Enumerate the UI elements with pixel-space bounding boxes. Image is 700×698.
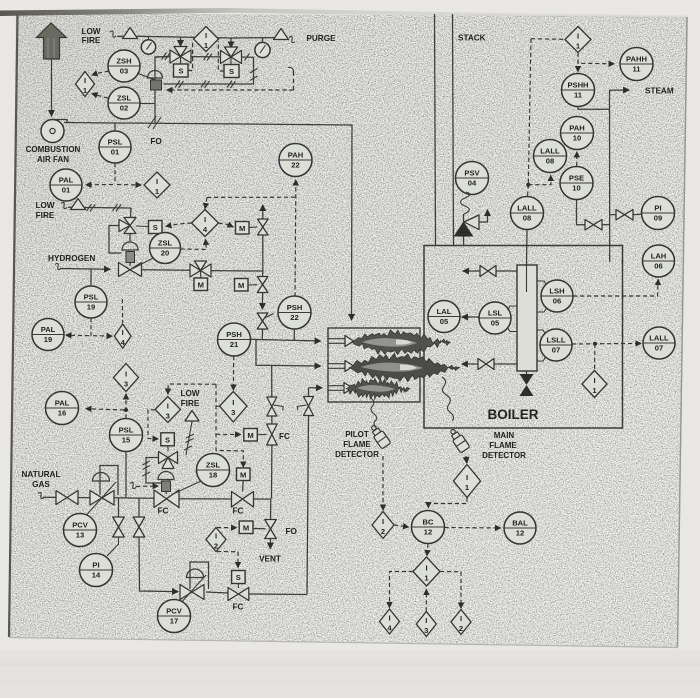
wire riser corner to burner 1 line xyxy=(261,329,263,340)
svg-text:S: S xyxy=(178,67,183,76)
FO vent valve xyxy=(265,520,277,539)
wire interlock header vertical xyxy=(216,384,243,467)
wire BC down to diamond xyxy=(427,544,428,556)
wire valve to PI14 xyxy=(107,537,119,556)
svg-text:I: I xyxy=(382,517,384,526)
wire interlock 3 up arrow xyxy=(425,590,427,612)
svg-text:FO: FO xyxy=(286,527,298,536)
manual valve on hydrogen riser xyxy=(257,313,273,329)
solenoid box S (hydrogen vent) xyxy=(149,221,163,234)
svg-text:I: I xyxy=(122,328,124,337)
svg-text:LSLL: LSLL xyxy=(547,336,566,345)
instrument LALL 08 (upper) xyxy=(534,140,567,173)
svg-text:09: 09 xyxy=(654,214,662,223)
wire S stem to pilot valve xyxy=(237,584,239,589)
wire PI14 branch xyxy=(118,498,120,517)
instrument BC 12 xyxy=(412,511,445,544)
hydrogen valve actuator dome and stem xyxy=(122,234,138,267)
wire faint dashed above diamond 4 xyxy=(121,299,123,323)
wire riser down with flow arrow xyxy=(261,293,263,310)
svg-text:10: 10 xyxy=(572,184,580,193)
3-way solenoid valve 1 xyxy=(170,47,191,65)
actuator box M (FO vent) xyxy=(239,521,253,534)
svg-text:I: I xyxy=(84,76,86,85)
wire purge header continues xyxy=(231,37,276,39)
svg-text:19: 19 xyxy=(44,335,52,344)
instrument PSHH 11 xyxy=(562,74,595,107)
burner block valve FC xyxy=(232,492,254,508)
hash marks gas vent xyxy=(184,434,194,450)
vent triangle low fire xyxy=(117,28,138,39)
svg-text:FIRE: FIRE xyxy=(36,211,55,220)
svg-text:HYDROGEN: HYDROGEN xyxy=(48,254,95,263)
interlock diamond 4 (bottom) xyxy=(380,609,400,634)
wire diamond to interlock 4 xyxy=(390,572,414,608)
instrument PCV 17 xyxy=(158,600,191,633)
wire valve to S stub xyxy=(136,225,149,228)
interlock diamond 1 (dampers) xyxy=(76,72,95,97)
steam line stub inside boiler xyxy=(609,246,611,263)
svg-text:02: 02 xyxy=(120,104,128,113)
svg-text:PSE: PSE xyxy=(569,174,584,183)
svg-text:PAL: PAL xyxy=(41,325,56,334)
wire S2 signal riser xyxy=(218,41,224,71)
label LOW FIRE (gas) xyxy=(180,389,199,408)
instrument PSL 01 xyxy=(99,131,131,163)
svg-text:FC: FC xyxy=(279,432,290,441)
wire burner 1 feed line xyxy=(251,339,321,341)
svg-text:PSHH: PSHH xyxy=(567,81,588,90)
svg-text:10: 10 xyxy=(573,134,581,143)
wire valve side loop xyxy=(109,226,122,254)
drum blowdown valve (solid) xyxy=(520,371,534,396)
wire ZSL18 stem to valve xyxy=(172,481,201,495)
svg-text:I: I xyxy=(125,370,127,379)
instrument LSLL 07 xyxy=(540,329,572,361)
svg-text:01: 01 xyxy=(62,186,71,195)
interlock diamond 2 (bottom) xyxy=(451,610,471,635)
svg-text:I: I xyxy=(156,177,158,186)
wire junction down to LALL lower xyxy=(527,185,530,197)
burner windbox xyxy=(328,328,420,402)
solenoid box S (pilot) xyxy=(232,571,246,584)
wire header branch to M main gas xyxy=(216,433,241,435)
svg-text:VENT: VENT xyxy=(259,555,281,564)
instrument PSE 10 xyxy=(560,167,593,200)
svg-text:03: 03 xyxy=(120,67,128,76)
svg-text:05: 05 xyxy=(440,317,449,326)
wire hydrogen line to riser xyxy=(211,270,263,272)
wire PSH21 signal to diamond 3 xyxy=(232,356,234,390)
wire ZSL02 stub xyxy=(140,103,155,105)
svg-text:FC: FC xyxy=(158,507,169,516)
svg-text:GAS: GAS xyxy=(32,480,50,489)
svg-text:LSH: LSH xyxy=(549,287,564,296)
svg-text:ZSL: ZSL xyxy=(117,94,132,103)
svg-text:I: I xyxy=(167,402,169,411)
gauge (pressure, left) xyxy=(141,37,155,55)
svg-text:11: 11 xyxy=(632,65,641,74)
damper column with actuator xyxy=(148,57,171,124)
wire ZSL20 stem to valve xyxy=(133,258,153,269)
bottom edge line xyxy=(9,638,678,648)
svg-text:LALL: LALL xyxy=(540,147,560,156)
wire pilot detector signal xyxy=(382,456,384,510)
instrument LSL 05 xyxy=(479,302,511,334)
node junction dot PSL15 signal xyxy=(124,408,128,412)
instrument PAH 10 xyxy=(561,117,594,150)
svg-text:NATURAL: NATURAL xyxy=(22,470,61,479)
svg-text:LALL: LALL xyxy=(517,204,537,213)
instrument LAH 06 xyxy=(643,245,675,277)
wire riser down from hydrogen line xyxy=(262,271,264,277)
svg-text:I: I xyxy=(215,532,217,541)
wire junction to LALL upper xyxy=(528,176,551,185)
wire M stub to riser valve xyxy=(248,284,257,286)
instrument PI 09 xyxy=(642,197,675,230)
instrument PSH 21 xyxy=(218,323,251,356)
wire SSV vent loop with hashes xyxy=(143,458,162,484)
FO break symbol on duct xyxy=(148,116,161,129)
main gas safety shutoff valve FC xyxy=(154,490,179,508)
PCV17 yoke and dome xyxy=(179,562,209,605)
svg-text:LOW: LOW xyxy=(180,389,199,398)
interlock diamond 1 (main flame) xyxy=(454,465,481,498)
interlock diamond 4 (hydrogen pressure) xyxy=(114,324,131,348)
svg-text:I: I xyxy=(460,614,462,623)
svg-text:PAH: PAH xyxy=(288,151,303,160)
interlock diamond 3 (gas pressure) xyxy=(114,364,139,392)
wire hydrogen inlet xyxy=(60,268,110,271)
wire diamond to PSHH xyxy=(577,53,579,72)
svg-text:PSL: PSL xyxy=(119,426,134,435)
wire M to vent riser valve stub xyxy=(249,226,258,229)
wire vent arrow down xyxy=(269,539,271,549)
purge squiggle xyxy=(289,36,295,42)
flame burner 1 xyxy=(351,330,450,355)
interlock diamond 2 (pilot flame) xyxy=(372,512,394,539)
actuator box M (burner isolation) xyxy=(237,468,251,481)
svg-text:I: I xyxy=(232,398,234,407)
svg-text:06: 06 xyxy=(553,297,561,306)
wire PSH22 to PAH22 dashed riser xyxy=(294,180,297,297)
svg-text:I: I xyxy=(425,564,427,573)
wire LSH06 to LAH06 xyxy=(573,280,658,297)
wire LALL lower tap into boiler xyxy=(526,230,529,266)
svg-text:PAL: PAL xyxy=(59,176,74,185)
3-way valve above gas SSV xyxy=(159,446,178,469)
wire LSL05 to LAL05 arrow xyxy=(462,316,479,318)
wire steam line xyxy=(610,90,630,246)
wire M stub to FO valve xyxy=(253,528,266,530)
svg-text:DETECTOR: DETECTOR xyxy=(482,451,526,460)
wire main flame diamond to BC xyxy=(428,498,467,508)
wire diamond4 to S box xyxy=(166,223,192,226)
valve PCV13 body xyxy=(90,491,114,506)
wire dashed from stack area to diamond xyxy=(531,38,565,41)
3-way vent valve (hydrogen actuator) xyxy=(119,218,136,234)
wire ZSH03 to diamond xyxy=(92,71,109,75)
wire ZSL02 to diamond xyxy=(92,94,108,99)
wire PSL15 tap xyxy=(125,452,127,498)
wire PSE vent tap xyxy=(577,200,586,225)
svg-text:LSL: LSL xyxy=(488,309,503,318)
svg-text:FLAME: FLAME xyxy=(343,440,371,449)
wire ZSL20 signal to diamond4 xyxy=(181,240,207,250)
wire M to burner block valve xyxy=(242,481,245,492)
instrument PSH 22 xyxy=(278,296,311,329)
FC control valve on main gas riser xyxy=(267,424,278,445)
interlock diamond 1 (air fan) xyxy=(144,172,170,198)
svg-text:STACK: STACK xyxy=(458,34,486,43)
svg-text:17: 17 xyxy=(170,617,178,626)
interlock diamond 3 (bottom) xyxy=(416,612,436,637)
wire diamond2 to pilot solenoid S xyxy=(217,552,238,568)
svg-text:PSH: PSH xyxy=(287,303,303,312)
wire PSHH tap to steam line xyxy=(578,107,610,110)
solenoid box S (gas SSV) xyxy=(161,433,175,446)
flame burner 3 (pilot) xyxy=(346,378,410,399)
purge vent triangle xyxy=(274,29,289,40)
svg-text:21: 21 xyxy=(230,340,239,349)
gas low fire vent triangle xyxy=(185,411,199,456)
gauge (pressure, right) xyxy=(255,38,270,58)
svg-text:BC: BC xyxy=(423,518,434,527)
instrument LALL 07 xyxy=(643,327,675,359)
valve on pilot riser xyxy=(298,397,314,416)
wire PCV17 branch xyxy=(138,498,140,517)
top dark bar xyxy=(0,8,688,19)
svg-text:PSH: PSH xyxy=(226,330,242,339)
svg-text:M: M xyxy=(247,431,253,440)
wire stack pole down to fan xyxy=(51,59,53,116)
svg-text:I: I xyxy=(577,32,579,41)
svg-text:3: 3 xyxy=(424,626,428,635)
relief valve with spring xyxy=(454,192,488,246)
hydrogen low fire squiggle xyxy=(61,202,67,208)
svg-text:I: I xyxy=(593,376,595,385)
hydrogen shutoff valve body xyxy=(119,263,142,277)
wire PI09 stub xyxy=(633,213,642,216)
valve on PI09 tap xyxy=(616,210,633,221)
svg-text:PAHH: PAHH xyxy=(626,55,647,64)
instrument PAL 19 xyxy=(32,319,64,351)
label LOW FIRE (hydrogen) xyxy=(35,201,54,220)
svg-text:COMBUSTION: COMBUSTION xyxy=(26,145,81,154)
flame burner 2 xyxy=(350,353,460,382)
block valve on main gas riser xyxy=(267,397,283,416)
boiler outline box xyxy=(424,246,623,429)
svg-text:LAL: LAL xyxy=(437,307,452,316)
svg-text:06: 06 xyxy=(654,262,662,271)
svg-text:AIR FAN: AIR FAN xyxy=(37,155,69,164)
svg-text:PURGE: PURGE xyxy=(306,34,336,43)
PCV13 yoke and dome actuator xyxy=(82,466,118,521)
svg-text:12: 12 xyxy=(516,529,524,538)
interlock diamond 3 (gas low fire) xyxy=(155,397,180,423)
wire PSL01 tap xyxy=(114,123,116,131)
svg-text:12: 12 xyxy=(424,528,432,537)
actuator box M (main gas valve) xyxy=(244,429,257,442)
wire vent line corner down to 3-way xyxy=(130,208,133,218)
vent squiggle low fire xyxy=(110,31,116,37)
svg-text:I: I xyxy=(204,215,206,224)
instrument BAL 12 xyxy=(504,512,536,544)
label NATURAL GAS xyxy=(22,470,61,489)
wire low fire / purge header xyxy=(136,36,231,38)
wire PSL15 signal up xyxy=(125,394,127,419)
valve on PCV17 branch xyxy=(133,517,145,537)
wire interlock header to diamond3 xyxy=(168,384,216,394)
svg-text:I: I xyxy=(388,614,390,623)
vent stack (atmospheric vent house symbol) xyxy=(37,23,67,59)
drum vent valve upper xyxy=(463,266,517,277)
svg-text:ZSL: ZSL xyxy=(158,239,173,248)
instrument PAH 22 xyxy=(279,144,312,177)
svg-text:18: 18 xyxy=(209,471,217,480)
interlock diamond 4 (H2 vent solenoids) xyxy=(192,210,219,237)
solenoid box S valve2 xyxy=(224,65,239,78)
wire S1 signal riser xyxy=(188,41,193,71)
natural gas inlet squiggle xyxy=(38,492,44,498)
instrument PSL 19 xyxy=(75,286,107,318)
svg-text:ZSL: ZSL xyxy=(206,461,221,470)
svg-text:I: I xyxy=(205,31,207,40)
svg-text:DETECTOR: DETECTOR xyxy=(335,450,379,459)
svg-text:M: M xyxy=(239,224,245,233)
flame rod main (wavy) xyxy=(442,377,453,421)
actuator box M (vent riser) xyxy=(236,222,250,235)
label COMBUSTION AIR FAN xyxy=(26,145,81,164)
svg-text:07: 07 xyxy=(552,346,560,355)
instrument PI 14 xyxy=(80,554,113,587)
node junction dot on stack signal xyxy=(526,183,530,187)
svg-text:S: S xyxy=(236,573,241,582)
wire diamond4 to M box xyxy=(219,223,234,227)
wire gas line to PCV13 xyxy=(78,497,90,499)
svg-text:PILOT: PILOT xyxy=(345,430,369,439)
wire M stub to FC valve xyxy=(257,434,266,436)
wire valve2 right loop piping xyxy=(164,57,254,84)
wire PSE to PAH arrow xyxy=(576,152,578,166)
svg-text:I: I xyxy=(466,473,468,482)
wire branch down to pilot gas line xyxy=(139,537,178,592)
wire burner 2 branch xyxy=(256,340,321,366)
svg-text:22: 22 xyxy=(291,161,299,170)
burner 2 nozzle xyxy=(328,361,354,372)
node junction dot LSLL signal xyxy=(593,342,597,346)
instrument PAL 16 xyxy=(46,392,79,425)
svg-text:PSL: PSL xyxy=(84,293,99,302)
pilot riser xyxy=(309,387,323,389)
wire gas inlet xyxy=(43,496,56,498)
wire gas header between valves xyxy=(179,498,232,500)
wire riser between valves xyxy=(271,416,273,424)
drum drain valve lower xyxy=(462,359,517,370)
interlock diamond 1 (purge header) xyxy=(194,27,219,52)
air supply squiggle to positioner xyxy=(130,482,158,488)
svg-text:M: M xyxy=(243,524,249,533)
svg-text:22: 22 xyxy=(290,313,298,322)
svg-text:LALL: LALL xyxy=(649,334,669,343)
valve PCV17 body xyxy=(180,585,204,600)
instrument PSV 04 xyxy=(456,162,489,195)
svg-text:PSV: PSV xyxy=(464,169,480,178)
svg-text:16: 16 xyxy=(58,409,66,418)
interlock diamond 1 (BMS) xyxy=(413,557,440,586)
svg-text:M: M xyxy=(198,281,204,290)
instrument LAL 05 xyxy=(428,301,460,333)
svg-text:2: 2 xyxy=(459,624,463,633)
svg-text:FC: FC xyxy=(233,507,244,516)
svg-text:PAH: PAH xyxy=(569,124,584,133)
wire valve1 left port piping xyxy=(156,56,170,59)
svg-text:LOW: LOW xyxy=(81,27,100,36)
instrument ZSH 03 xyxy=(108,50,140,82)
wire main detector arrow xyxy=(465,456,468,463)
svg-text:14: 14 xyxy=(92,571,101,580)
label MAIN FLAME DETECTOR xyxy=(482,431,526,460)
interlock diamond 2 (pilot) xyxy=(206,528,226,552)
interlock diamond 1 (stack/steam) xyxy=(565,27,591,53)
wire PSH22 tap to burner line xyxy=(293,329,295,340)
wire ZSH03 stub xyxy=(137,73,155,80)
interlock diamond 1 (low water) xyxy=(582,371,607,398)
wire diamond to PAHH xyxy=(578,53,614,64)
right edge line xyxy=(678,17,688,647)
wire branch arrow into valve1 xyxy=(180,37,182,46)
wire PSL19 signal tee xyxy=(66,318,112,336)
svg-text:3: 3 xyxy=(231,408,235,417)
wire PSL19 tap xyxy=(90,269,92,286)
hydrogen low fire vent triangle xyxy=(68,199,131,210)
svg-text:08: 08 xyxy=(546,157,554,166)
wire BC to BAL dashed xyxy=(445,527,501,530)
valve on PSE tap xyxy=(585,220,602,231)
svg-text:FLAME: FLAME xyxy=(489,441,517,450)
label LOW FIRE (top) xyxy=(81,27,100,45)
wire gas header xyxy=(114,497,154,500)
solenoid box S valve1 xyxy=(174,64,189,77)
combustion air fan xyxy=(41,120,67,143)
instrument ZSL 20 xyxy=(150,233,181,264)
svg-text:ZSH: ZSH xyxy=(116,57,131,66)
svg-text:15: 15 xyxy=(122,436,131,445)
svg-text:S: S xyxy=(165,435,170,444)
actuator box M (hydrogen block) xyxy=(194,278,208,291)
wire LSL05 taps xyxy=(508,306,518,332)
wire diamond2 to M xyxy=(217,527,237,529)
wire LSH06 taps xyxy=(537,281,547,312)
wire gas header to vent riser xyxy=(254,498,271,500)
svg-text:3: 3 xyxy=(124,380,128,389)
wire pilot flame diamond to BC xyxy=(394,525,409,527)
wire valve1-valve2 piping xyxy=(191,56,221,58)
wire PSL01 signal tee to PAL01 and interlock 1 xyxy=(86,163,141,185)
svg-text:FIRE: FIRE xyxy=(82,36,101,45)
svg-text:07: 07 xyxy=(655,344,663,353)
wire FO vent riser xyxy=(270,499,272,519)
svg-text:M: M xyxy=(238,281,244,290)
wire riser down to gas header xyxy=(271,445,273,499)
interlock diamond 3 (burner) xyxy=(220,392,247,423)
wire hydrogen vent riser top arrow xyxy=(262,205,264,271)
hash marks pneumatic xyxy=(162,53,258,89)
gas inlet block valve xyxy=(56,491,78,505)
steam drum / water column xyxy=(517,265,537,371)
stack duct lines xyxy=(435,14,454,246)
3-way solenoid valve 2 xyxy=(221,47,242,65)
